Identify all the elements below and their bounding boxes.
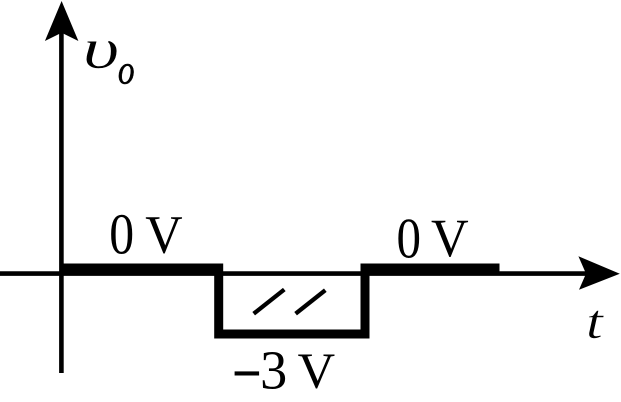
hatch slash 2	[296, 290, 326, 314]
svg-text:o: o	[118, 49, 135, 94]
voltage axis arrowhead	[45, 1, 79, 41]
svg-text:0: 0	[109, 202, 134, 266]
svg-text:V: V	[145, 205, 182, 264]
waveform: 0V, step down to -3V, back to 0V	[61, 268, 500, 334]
voltage axis (vertical)	[59, 25, 64, 373]
time axis arrowhead	[578, 256, 619, 290]
svg-text:V: V	[298, 343, 335, 399]
label "-3 V" (low-level segment)	[235, 371, 260, 375]
svg-text:t: t	[586, 295, 605, 349]
svg-text:3: 3	[260, 339, 287, 400]
hatch slash 1	[254, 290, 285, 314]
svg-text:υ: υ	[83, 16, 120, 81]
svg-text:V: V	[431, 209, 469, 268]
time axis (horizontal)	[0, 271, 592, 276]
svg-text:0: 0	[396, 207, 421, 270]
